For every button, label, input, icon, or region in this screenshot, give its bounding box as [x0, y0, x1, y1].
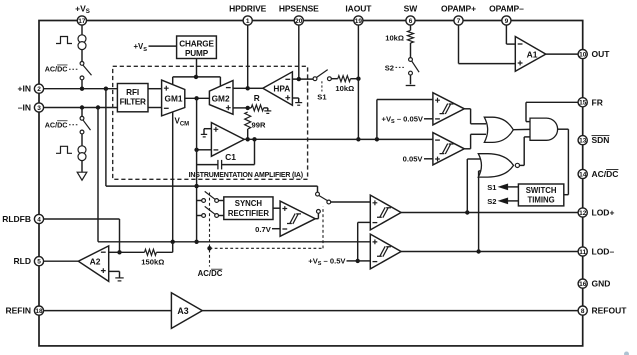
- svg-text:A3: A3: [177, 306, 188, 316]
- svg-text:AC/DC: AC/DC: [45, 65, 68, 74]
- svg-text:A2: A2: [90, 257, 101, 267]
- svg-text:A1: A1: [527, 49, 538, 59]
- svg-text:CHARGE: CHARGE: [179, 40, 214, 49]
- svg-text:RFI: RFI: [126, 88, 139, 97]
- svg-text:SYNCH: SYNCH: [235, 199, 263, 208]
- svg-text:VCM: VCM: [175, 117, 190, 128]
- svg-text:RECTIFIER: RECTIFIER: [228, 209, 270, 218]
- svg-text:AC/DC: AC/DC: [45, 120, 68, 129]
- svg-text:17: 17: [78, 18, 86, 25]
- svg-text:19: 19: [355, 18, 363, 25]
- svg-text:GND: GND: [592, 279, 611, 289]
- svg-text:S2: S2: [487, 197, 496, 206]
- svg-text:5: 5: [37, 259, 41, 266]
- svg-text:AC/DC: AC/DC: [592, 169, 619, 179]
- svg-text:+VS: +VS: [133, 42, 147, 53]
- svg-text:C1: C1: [225, 152, 236, 162]
- svg-text:HPDRIVE: HPDRIVE: [229, 3, 267, 13]
- svg-text:IAOUT: IAOUT: [345, 3, 372, 13]
- svg-text:10kΩ: 10kΩ: [335, 84, 354, 93]
- svg-text:HPA: HPA: [273, 84, 290, 94]
- svg-text:GM2: GM2: [212, 93, 230, 103]
- svg-text:+VS – 0.05V: +VS – 0.05V: [382, 114, 424, 125]
- svg-text:TIMING: TIMING: [527, 196, 554, 205]
- svg-text:4: 4: [37, 216, 41, 223]
- svg-text:S1: S1: [317, 92, 327, 101]
- svg-text:14: 14: [579, 171, 587, 178]
- svg-text:9: 9: [505, 18, 509, 25]
- svg-text:SW: SW: [404, 3, 419, 13]
- svg-text:15: 15: [579, 100, 587, 107]
- svg-text:R: R: [254, 93, 260, 103]
- svg-text:PUMP: PUMP: [185, 49, 209, 58]
- svg-text:13: 13: [579, 138, 587, 145]
- svg-text:1: 1: [246, 18, 250, 25]
- svg-text:RLDFB: RLDFB: [2, 214, 31, 224]
- svg-text:12: 12: [579, 210, 587, 217]
- svg-text:2: 2: [37, 86, 41, 93]
- svg-text:INSTRUMENTATION AMPLIFIER (IA): INSTRUMENTATION AMPLIFIER (IA): [189, 172, 303, 179]
- svg-text:FILTER: FILTER: [120, 98, 146, 107]
- svg-text:OUT: OUT: [592, 49, 611, 59]
- svg-text:OPAMP–: OPAMP–: [489, 3, 524, 13]
- svg-text:+IN: +IN: [18, 84, 31, 94]
- svg-text:REFIN: REFIN: [6, 306, 32, 316]
- svg-text:–IN: –IN: [18, 103, 31, 113]
- svg-text:OPAMP+: OPAMP+: [441, 3, 476, 13]
- svg-text:FR: FR: [592, 97, 603, 107]
- svg-text:99R: 99R: [252, 121, 266, 130]
- svg-text:10kΩ: 10kΩ: [385, 34, 404, 43]
- svg-text:REFOUT: REFOUT: [592, 306, 628, 316]
- svg-text:LOD–: LOD–: [592, 247, 615, 257]
- svg-text:150kΩ: 150kΩ: [141, 257, 164, 266]
- svg-text:S1: S1: [487, 183, 497, 192]
- svg-text:7: 7: [457, 18, 461, 25]
- svg-text:16: 16: [579, 281, 587, 288]
- svg-text:LOD+: LOD+: [592, 208, 615, 218]
- svg-text:18: 18: [35, 308, 43, 315]
- svg-text:AC/DC: AC/DC: [198, 269, 223, 278]
- svg-text:SDN: SDN: [592, 135, 610, 145]
- svg-text:HPSENSE: HPSENSE: [279, 3, 319, 13]
- svg-text:0.05V: 0.05V: [403, 155, 424, 164]
- svg-text:RLD: RLD: [14, 256, 31, 266]
- svg-text:SWITCH: SWITCH: [526, 186, 557, 195]
- svg-text:20: 20: [295, 18, 303, 25]
- svg-text:S2: S2: [385, 63, 394, 72]
- svg-text:+VS: +VS: [75, 3, 90, 15]
- svg-text:11: 11: [579, 249, 586, 256]
- svg-text:6: 6: [409, 18, 413, 25]
- svg-text:+VS – 0.5V: +VS – 0.5V: [308, 257, 346, 268]
- svg-text:GM1: GM1: [165, 93, 183, 103]
- svg-text:10: 10: [579, 51, 587, 58]
- svg-text:3: 3: [37, 105, 41, 112]
- svg-text:0.7V: 0.7V: [255, 225, 272, 234]
- svg-text:8: 8: [581, 308, 585, 315]
